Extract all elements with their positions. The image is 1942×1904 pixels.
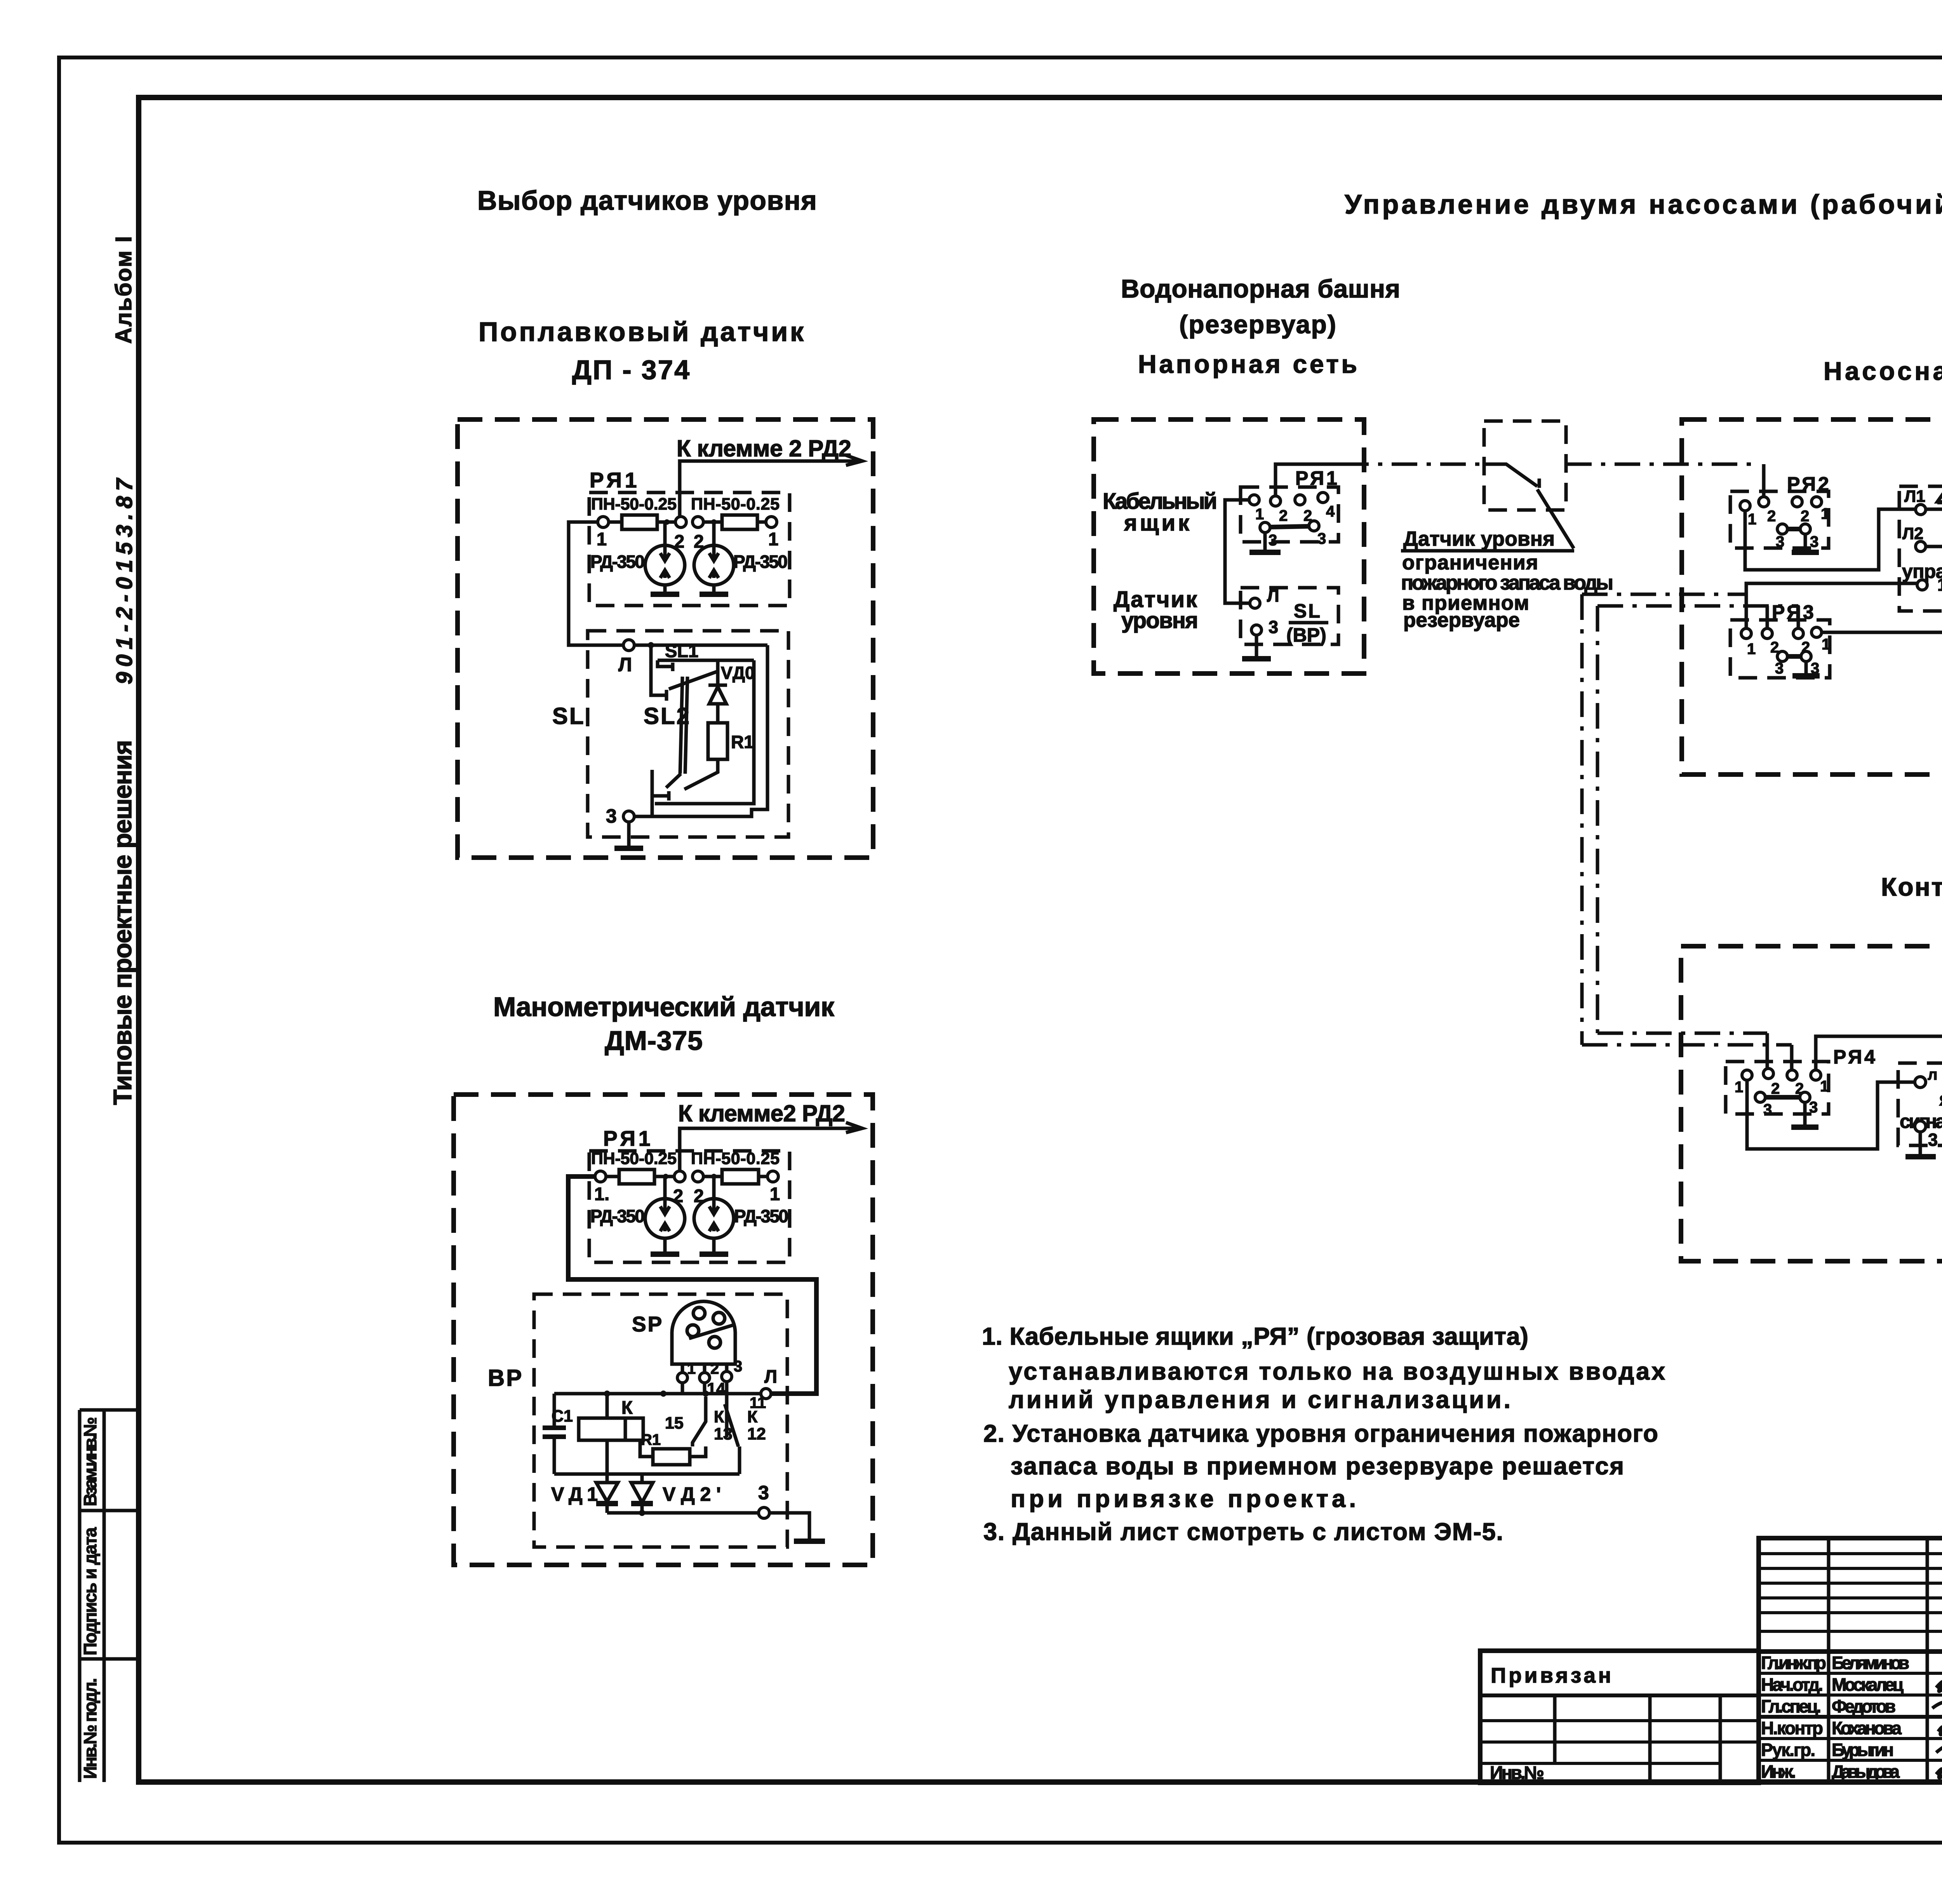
svg-text:3: 3 xyxy=(1317,530,1326,547)
svg-text:ограничения: ограничения xyxy=(1402,551,1538,574)
svg-text:2: 2 xyxy=(1767,508,1776,525)
svg-text:1. Кабельные ящики „РЯ” (гр: 1. Кабельные ящики „РЯ” (грозовая защита… xyxy=(982,1323,1528,1350)
svg-text:3: 3 xyxy=(1928,1130,1938,1150)
svg-text:10: 10 xyxy=(1937,575,1942,595)
svg-text:ВР: ВР xyxy=(488,1365,523,1391)
svg-text:Манометрический датчик: Манометрический датчик xyxy=(493,992,836,1022)
svg-text:3: 3 xyxy=(1809,1099,1818,1116)
svg-text:Водонапорная башня: Водонапорная башня xyxy=(1121,274,1403,303)
svg-text:Инв.№ подл.: Инв.№ подл. xyxy=(80,1678,100,1779)
svg-text:Кабельный: Кабельный xyxy=(1103,489,1217,514)
svg-text:1.: 1. xyxy=(594,1183,609,1204)
svg-text:12: 12 xyxy=(747,1425,766,1443)
svg-text:3. Данный лист смотреть с: 3. Данный лист смотреть с листом ЭМ-5. xyxy=(983,1518,1503,1545)
svg-text:2: 2 xyxy=(1771,1080,1780,1097)
svg-text:Беляминов: Беляминов xyxy=(1832,1653,1909,1673)
svg-text:Гл.инж.пр: Гл.инж.пр xyxy=(1761,1653,1826,1673)
svg-text:Л: Л xyxy=(618,654,632,675)
svg-text:Контрольный пункт: Контрольный пункт xyxy=(1881,872,1942,901)
svg-text:ячейка: ячейка xyxy=(1939,1088,1942,1110)
svg-text:К: К xyxy=(714,1408,724,1426)
svg-text:л: л xyxy=(1928,1066,1937,1083)
svg-text:Взам.инв.№: Взам.инв.№ xyxy=(80,1417,100,1506)
svg-text:SL2: SL2 xyxy=(644,703,691,729)
svg-text:Типовые проектные решения: Типовые проектные решения xyxy=(108,740,137,1105)
svg-text:SL: SL xyxy=(1294,600,1322,622)
svg-text:Насосная станция: Насосная станция xyxy=(1824,357,1942,385)
svg-text:3: 3 xyxy=(734,1358,742,1375)
svg-text:2: 2 xyxy=(1279,507,1288,524)
svg-text:2. Установка датчика уровня: 2. Установка датчика уровня ограничения … xyxy=(983,1420,1658,1447)
svg-text:1: 1 xyxy=(687,1360,696,1377)
svg-text:ДП - 374: ДП - 374 xyxy=(572,355,693,385)
svg-text:R1: R1 xyxy=(731,732,754,752)
svg-text:3: 3 xyxy=(606,805,617,827)
svg-text:ящик: ящик xyxy=(1124,510,1190,536)
svg-text:Рук.гр.: Рук.гр. xyxy=(1761,1740,1815,1760)
svg-text:Л1: Л1 xyxy=(1904,487,1925,506)
svg-text:Альбом I: Альбом I xyxy=(111,236,136,344)
svg-text:1: 1 xyxy=(1820,1078,1829,1095)
svg-text:ПН-50-0.25: ПН-50-0.25 xyxy=(591,1149,677,1168)
svg-text:3: 3 xyxy=(1775,660,1784,677)
svg-text:13: 13 xyxy=(714,1425,733,1443)
svg-text:1: 1 xyxy=(1748,511,1756,528)
svg-text:устанавливаются только на в: устанавливаются только на воздушных ввод… xyxy=(1009,1358,1665,1385)
svg-text:Датчик уровня: Датчик уровня xyxy=(1403,527,1555,550)
svg-text:Управление двумя насосами (: Управление двумя насосами (рабочий - рез… xyxy=(1345,189,1942,219)
svg-text:уровня: уровня xyxy=(1121,608,1198,633)
svg-text:1: 1 xyxy=(1822,636,1830,653)
svg-text:Бурыгин: Бурыгин xyxy=(1832,1740,1894,1760)
svg-text:1: 1 xyxy=(1747,640,1756,658)
svg-text:Федотов: Федотов xyxy=(1832,1696,1896,1716)
svg-text:SL1: SL1 xyxy=(665,640,698,661)
svg-text:пожарного запаса воды: пожарного запаса воды xyxy=(1401,571,1613,594)
svg-text:3: 3 xyxy=(1269,532,1277,549)
svg-text:РЯ1: РЯ1 xyxy=(603,1126,653,1150)
svg-text:1: 1 xyxy=(1735,1079,1743,1096)
svg-text:Поплавковый датчик: Поплавковый датчик xyxy=(479,317,806,347)
svg-text:2: 2 xyxy=(1801,508,1809,525)
svg-text:Давыдова: Давыдова xyxy=(1832,1761,1900,1782)
svg-text:Напорная сеть: Напорная сеть xyxy=(1138,350,1359,378)
svg-text:3: 3 xyxy=(1810,533,1818,550)
svg-text:Коханова: Коханова xyxy=(1832,1718,1902,1738)
svg-text:1: 1 xyxy=(768,529,778,549)
svg-text:(резервуар): (резервуар) xyxy=(1179,310,1338,339)
svg-text:Выбор датчиков уровня: Выбор датчиков уровня xyxy=(477,185,819,216)
svg-text:(ВР): (ВР) xyxy=(1286,624,1326,646)
svg-text:Москалец: Москалец xyxy=(1832,1674,1904,1695)
svg-text:Инж.: Инж. xyxy=(1761,1761,1796,1782)
svg-text:РД-350: РД-350 xyxy=(734,1206,788,1226)
svg-text:Н.контр: Н.контр xyxy=(1761,1718,1823,1738)
svg-text:ПН-50-0.25: ПН-50-0.25 xyxy=(691,1149,780,1168)
svg-text:14: 14 xyxy=(707,1380,726,1398)
svg-text:РД-350: РД-350 xyxy=(733,552,788,572)
svg-text:Подпись и дата: Подпись и дата xyxy=(80,1527,100,1655)
svg-text:3: 3 xyxy=(758,1482,769,1504)
svg-text:Привязан: Привязан xyxy=(1491,1663,1611,1687)
svg-text:1: 1 xyxy=(770,1183,780,1204)
svg-text:К: К xyxy=(621,1397,633,1418)
svg-text:1: 1 xyxy=(1255,506,1264,523)
svg-text:РД-350: РД-350 xyxy=(590,1206,645,1226)
svg-text:РЯ4: РЯ4 xyxy=(1833,1046,1878,1068)
svg-text:VД1: VД1 xyxy=(551,1483,598,1505)
svg-text:Л: Л xyxy=(764,1366,777,1387)
svg-text:R1: R1 xyxy=(641,1431,661,1448)
svg-text:РЯ1: РЯ1 xyxy=(590,468,640,492)
svg-text:ПН-50-0.25: ПН-50-0.25 xyxy=(591,495,677,513)
svg-text:2: 2 xyxy=(710,1360,719,1377)
svg-text:4: 4 xyxy=(1326,503,1335,520)
svg-text:3: 3 xyxy=(1776,533,1784,550)
svg-text:ДМ-375: ДМ-375 xyxy=(605,1025,705,1056)
svg-text:1: 1 xyxy=(1821,505,1829,522)
svg-text:VД0: VД0 xyxy=(721,663,755,683)
svg-text:SL: SL xyxy=(552,703,585,729)
svg-text:К клемме2 РД2: К клемме2 РД2 xyxy=(678,1100,845,1126)
svg-text:SP: SP xyxy=(632,1312,663,1336)
svg-text:К клемме 2 РД2: К клемме 2 РД2 xyxy=(677,435,851,461)
svg-text:К: К xyxy=(747,1408,758,1426)
svg-text:Нач.отд.: Нач.отд. xyxy=(1761,1674,1823,1695)
svg-text:3: 3 xyxy=(1269,617,1278,637)
svg-text:РД-350: РД-350 xyxy=(590,552,645,572)
svg-text:15: 15 xyxy=(665,1414,684,1432)
svg-text:Гл.спец.: Гл.спец. xyxy=(1761,1696,1821,1716)
svg-text:1: 1 xyxy=(597,529,607,549)
svg-text:резервуаре: резервуаре xyxy=(1403,609,1520,632)
svg-text:ПН-50-0.25: ПН-50-0.25 xyxy=(691,495,780,513)
svg-text:Инв.№: Инв.№ xyxy=(1490,1762,1544,1783)
svg-text:3: 3 xyxy=(1763,1101,1772,1118)
svg-text:запаса воды в приемном резе: запаса воды в приемном резервуаре решает… xyxy=(1011,1453,1624,1480)
